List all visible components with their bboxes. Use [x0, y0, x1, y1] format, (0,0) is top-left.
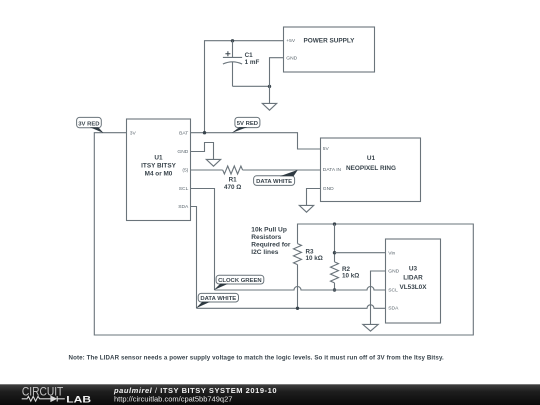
svg-text:5V: 5V [323, 146, 330, 152]
svg-text:Vin: Vin [388, 250, 395, 256]
svg-text:DATA WHITE: DATA WHITE [256, 179, 292, 185]
svg-text:GND: GND [323, 186, 334, 192]
svg-text:I2C lines: I2C lines [251, 249, 278, 256]
svg-text:LAB: LAB [66, 395, 91, 405]
svg-text:1 mF: 1 mF [245, 59, 260, 66]
svg-text:(5): (5) [182, 167, 188, 173]
svg-text:DATA IN: DATA IN [323, 167, 342, 173]
op-amp U1 ITSY BITSY box [127, 119, 191, 221]
svg-text:GND: GND [286, 56, 297, 62]
wire NeoPixel GND to ground [307, 189, 321, 206]
wire SCL line with hops [215, 287, 386, 291]
wire R1 to NeoPixel DATA IN [243, 169, 321, 171]
svg-text:10 kΩ: 10 kΩ [306, 255, 323, 262]
node +5V junction at C1 top [231, 39, 234, 42]
wire 3V loop: 3V pin, left edge, bottom, right edge, pull-up rail [94, 133, 473, 335]
svg-text:SDA: SDA [388, 306, 399, 312]
svg-text:R1: R1 [229, 176, 238, 183]
flag 3V RED [77, 117, 104, 133]
svg-text:paulmirel / ITSY BITSY SYSTEM: paulmirel / ITSY BITSY SYSTEM 2019-10 [113, 386, 277, 395]
svg-text:SCL: SCL [388, 287, 398, 293]
wire +5V rail from power supply to BAT junction [205, 41, 284, 133]
svg-text:U1: U1 [154, 155, 163, 162]
node R2/Vin junction [333, 251, 336, 254]
svg-text:10k Pull Up: 10k Pull Up [251, 227, 287, 234]
svg-text:CLOCK GREEN: CLOCK GREEN [218, 278, 262, 284]
svg-text:GND: GND [388, 269, 399, 275]
svg-text:Required for: Required for [251, 242, 291, 249]
node GND junction [268, 85, 271, 88]
svg-text:U3: U3 [409, 266, 418, 273]
wire C1 bottom to power supply GND [233, 85, 270, 87]
resistor R3 [294, 244, 302, 265]
wire SDA from ITSY BITSY [191, 207, 197, 309]
svg-text:M4 or M0: M4 or M0 [145, 171, 173, 178]
wire R3 to SDA line [297, 265, 299, 309]
flag DATA WHITE upper [254, 170, 298, 186]
ground ITSY BITSY [206, 159, 220, 166]
wire BAT to NeoPixel 5V [191, 133, 321, 149]
capacitor C1 [223, 41, 242, 87]
svg-text:LIDAR: LIDAR [403, 274, 423, 281]
power supply U1 box [284, 27, 375, 72]
svg-text:SCL: SCL [179, 186, 189, 192]
svg-text:Resistors: Resistors [251, 234, 281, 241]
ground NeoPixel [299, 205, 313, 212]
resistor R2 [331, 262, 339, 283]
svg-text:5V RED: 5V RED [237, 121, 258, 127]
node R3/SDA junction [296, 307, 299, 310]
logo waveform [22, 396, 65, 401]
svg-text:SDA: SDA [178, 204, 189, 210]
flag DATA WHITE lower [196, 293, 239, 308]
svg-text:3V: 3V [130, 130, 137, 136]
lidar U3 box [386, 239, 441, 323]
node R2/SCL junction [333, 288, 336, 291]
svg-text:Note: The LIDAR sensor needs a: Note: The LIDAR sensor needs a power sup… [69, 355, 445, 362]
wire LIDAR GND to ground [371, 271, 386, 324]
node BAT junction [203, 131, 206, 134]
resistor R1 [223, 166, 243, 174]
node rail/R2 junction [333, 222, 336, 225]
ground power supply [262, 103, 276, 110]
svg-text:+5V: +5V [286, 38, 296, 44]
svg-text:VL53L0X: VL53L0X [400, 284, 428, 291]
svg-text:ITSY BITSY: ITSY BITSY [141, 163, 176, 170]
wire Vin pin [335, 252, 386, 254]
svg-text:U1: U1 [367, 155, 376, 162]
footer bar [0, 384, 540, 405]
svg-text:http://circuitlab.com/cpat5bb7: http://circuitlab.com/cpat5bb749q27 [114, 395, 232, 404]
svg-text:10 kΩ: 10 kΩ [342, 273, 359, 280]
svg-text:GND: GND [177, 149, 188, 155]
svg-text:3V RED: 3V RED [78, 121, 99, 127]
svg-text:NEOPIXEL RING: NEOPIXEL RING [346, 165, 396, 172]
wire power supply GND pin down [270, 58, 284, 104]
svg-text:POWER SUPPLY: POWER SUPPLY [304, 38, 356, 45]
svg-text:DATA WHITE: DATA WHITE [200, 296, 236, 302]
wire (5) pin to R1 [191, 169, 223, 171]
svg-text:470 Ω: 470 Ω [224, 184, 241, 191]
wire R2 branch from rail [334, 224, 336, 262]
flag CLOCK GREEN [214, 275, 264, 290]
wire ITSY BITSY GND to ground [191, 143, 214, 160]
wire SCL from ITSY BITSY [191, 189, 215, 291]
neopixel ring U1 box [321, 138, 421, 202]
ground LIDAR [363, 324, 378, 331]
flag 5V RED [232, 117, 260, 133]
wire R2 to SCL line [334, 283, 336, 290]
wire SDA line with hop [197, 305, 386, 308]
svg-text:BAT: BAT [179, 130, 188, 136]
